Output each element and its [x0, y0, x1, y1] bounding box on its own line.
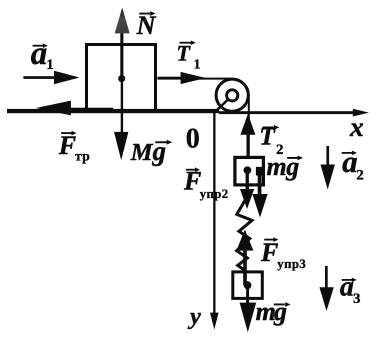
gravity label mg (block m2)	[256, 297, 291, 326]
svg-text:y: y	[187, 304, 201, 330]
svg-text:a: a	[342, 144, 358, 179]
spring force F_upr2 arrow (down from m1 dot)	[246, 170, 249, 192]
spring force label F_upr2	[183, 166, 229, 201]
svg-text:упр3: упр3	[277, 257, 306, 271]
normal force label N	[136, 11, 157, 40]
y-axis line	[213, 111, 215, 316]
rope over pulley	[158, 79, 249, 156]
svg-text:a: a	[31, 36, 48, 72]
svg-text:F: F	[183, 166, 201, 195]
svg-text:0: 0	[186, 124, 200, 155]
svg-text:x: x	[349, 111, 364, 142]
svg-text:упр2: упр2	[200, 187, 229, 201]
y-axis arrowhead	[210, 313, 219, 330]
gravity Mg arrow (down)	[121, 79, 123, 137]
friction force label F_tr	[58, 131, 90, 164]
gravity mg arrow on m2 (down)	[246, 285, 249, 306]
pulley outer wheel	[216, 79, 248, 111]
svg-text:T: T	[259, 121, 276, 150]
tension label T2	[259, 121, 283, 158]
block m1	[235, 157, 264, 185]
friction force F_tr arrow (left along surface)	[65, 108, 113, 112]
gravity mg arrow on m1 (blob start)	[256, 167, 264, 176]
block m2	[233, 272, 262, 299]
acceleration label a1	[31, 36, 54, 73]
pulley axle	[227, 90, 238, 101]
gravity label Mg	[130, 136, 173, 166]
tension T1 arrow	[158, 77, 186, 80]
x-axis surface line (thick left part)	[7, 109, 219, 113]
tension label T1	[177, 40, 201, 72]
acceleration a1 arrow	[23, 76, 57, 79]
svg-text:F: F	[58, 131, 76, 160]
gravity label mg (block m1)	[267, 152, 304, 181]
tension T2 arrow (up from block m1)	[247, 131, 250, 156]
spring force F_upr3 arrow (up from m2 dot)	[243, 247, 247, 285]
acceleration label a3	[340, 272, 361, 307]
svg-text:T: T	[177, 41, 192, 66]
svg-text:1: 1	[194, 58, 201, 73]
svg-text:g: g	[285, 152, 299, 181]
svg-text:2: 2	[356, 168, 364, 184]
svg-text:N: N	[136, 11, 157, 40]
svg-text:m: m	[256, 297, 276, 326]
pulley spoke	[217, 98, 230, 111]
normal force N arrow (up, grey head)	[120, 28, 123, 79]
spring between m1 and m2	[237, 187, 252, 271]
block M	[87, 45, 156, 111]
svg-text:M: M	[130, 139, 154, 166]
svg-text:g: g	[273, 297, 287, 326]
acceleration a2 arrow (down)	[326, 146, 329, 168]
acceleration a3 arrow (down)	[325, 266, 328, 290]
x-axis line (thin right part)	[219, 111, 354, 114]
svg-text:F: F	[260, 238, 278, 267]
svg-text:тр: тр	[75, 148, 90, 163]
acceleration label a2	[342, 144, 364, 184]
block m2 center dot	[244, 281, 252, 289]
block m1 center dot	[244, 166, 252, 174]
block M center dot	[118, 75, 125, 82]
svg-text:1: 1	[46, 57, 54, 73]
svg-text:a: a	[340, 272, 354, 303]
svg-text:g: g	[152, 136, 167, 166]
svg-text:3: 3	[353, 291, 361, 307]
spring force label F_upr3	[260, 237, 306, 270]
svg-text:m: m	[267, 152, 287, 181]
x-axis arrowhead	[353, 109, 369, 117]
